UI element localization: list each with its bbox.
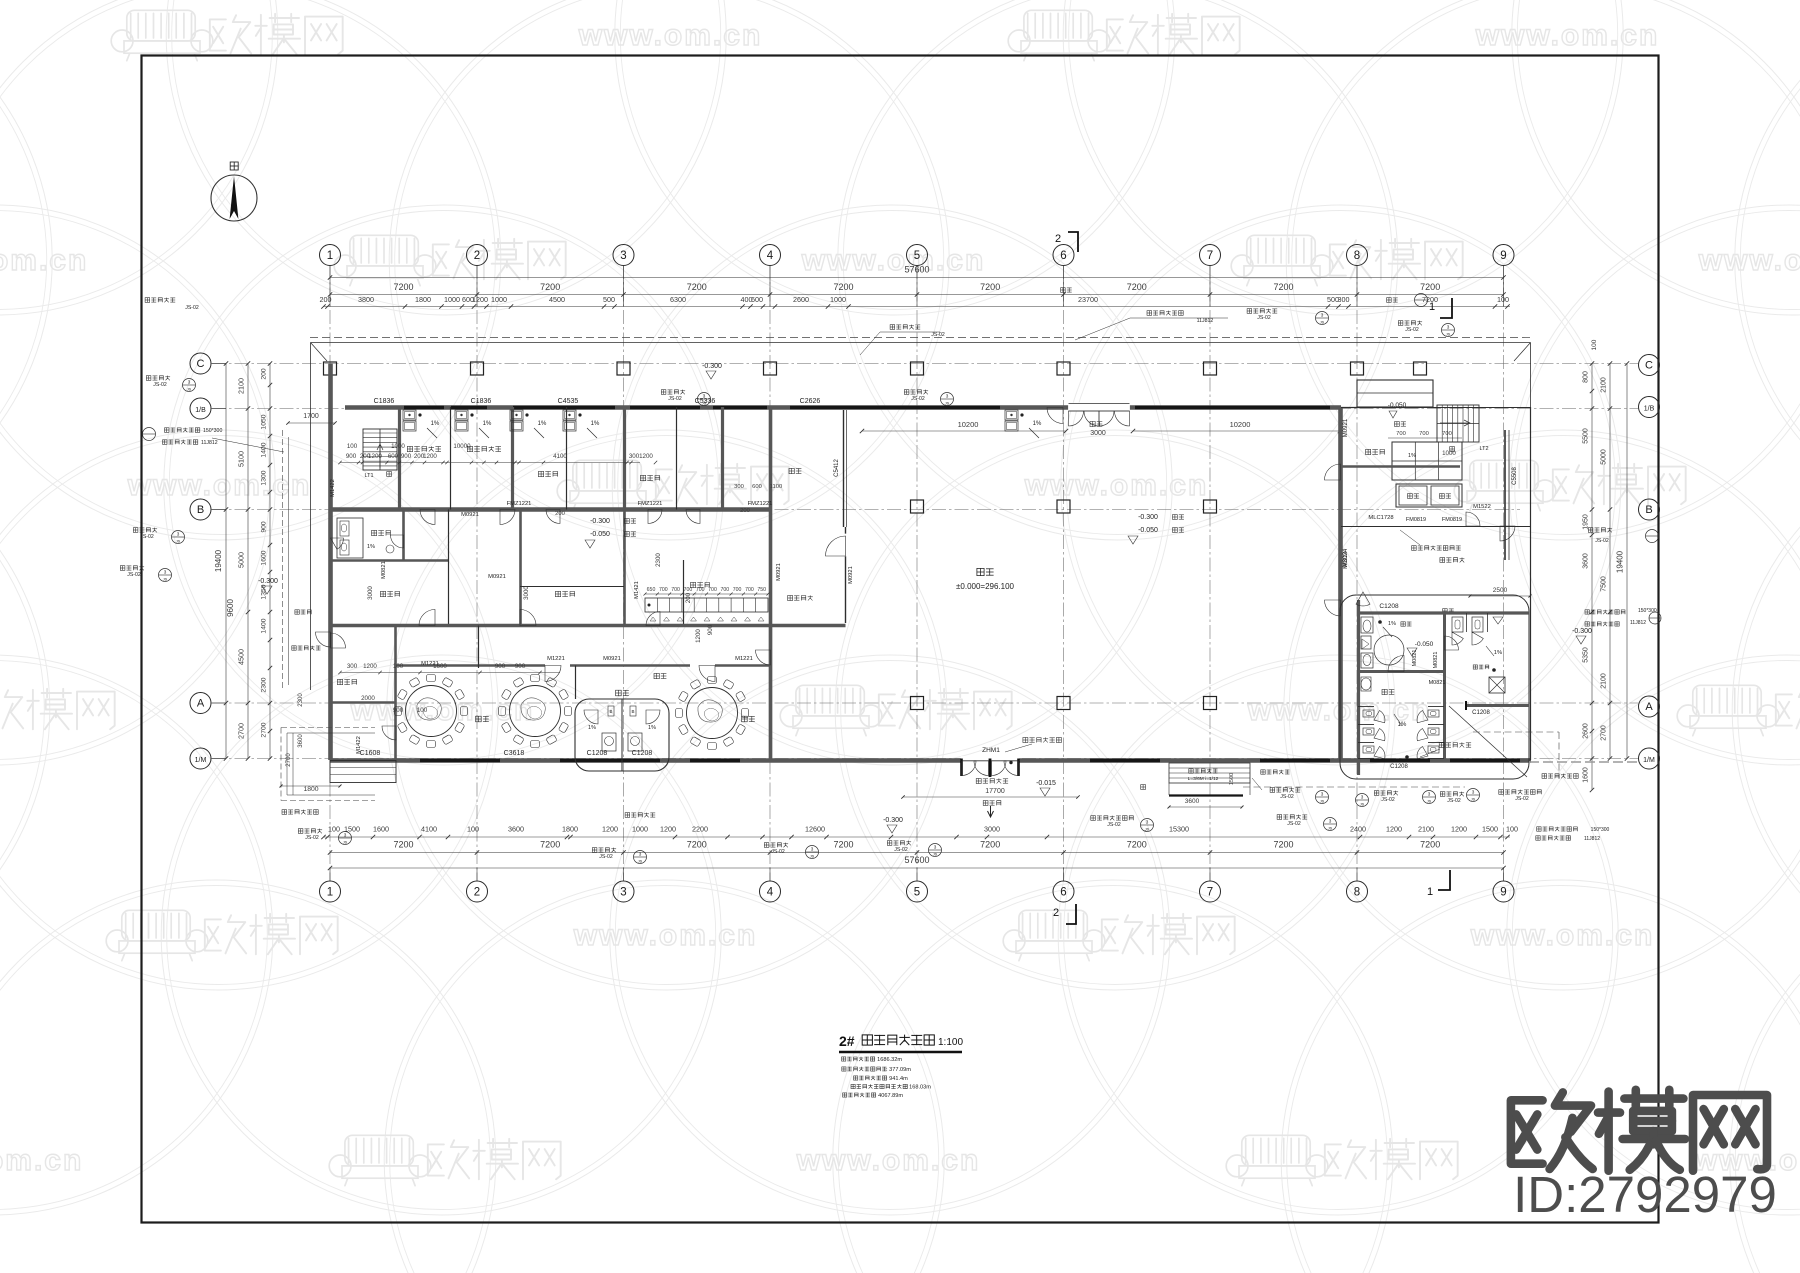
svg-text:650: 650	[647, 587, 656, 593]
svg-text:7200: 7200	[833, 282, 853, 292]
svg-text:200: 200	[685, 592, 692, 603]
svg-text:7200: 7200	[393, 840, 413, 850]
banquet corridor wall	[395, 664, 545, 667]
floor plan drawing	[120, 56, 1661, 1223]
svg-text:5350: 5350	[1583, 647, 1590, 663]
svg-text:9: 9	[1500, 887, 1506, 899]
svg-text:M0821: M0821	[1429, 680, 1446, 686]
svg-text:B: B	[1645, 504, 1652, 516]
svg-text:M0921: M0921	[461, 512, 479, 518]
svg-text:-0.050: -0.050	[590, 531, 610, 538]
svg-text:-0.300: -0.300	[883, 817, 903, 824]
svg-text:4500: 4500	[237, 649, 246, 665]
svg-text:3: 3	[934, 845, 937, 850]
svg-text:7200: 7200	[687, 282, 707, 292]
svg-text:100: 100	[1591, 339, 1598, 350]
svg-text:-0.300: -0.300	[590, 518, 610, 525]
toilet block bottom right	[1340, 595, 1529, 779]
svg-text:JS: JS	[1145, 828, 1150, 832]
svg-text:1300: 1300	[261, 470, 268, 485]
svg-text:1200: 1200	[660, 825, 676, 834]
svg-text:10200: 10200	[1230, 420, 1251, 429]
svg-text:1200: 1200	[363, 663, 377, 670]
shafts dianjing shuijing	[1396, 484, 1462, 507]
svg-text:900: 900	[707, 624, 714, 635]
svg-text:M0921: M0921	[1343, 418, 1349, 437]
wall start label	[1439, 742, 1471, 747]
B-axis wall	[330, 507, 770, 511]
svg-text:2700: 2700	[237, 723, 246, 739]
banquet band top wall	[330, 624, 846, 628]
svg-text:750: 750	[757, 587, 766, 593]
svg-text:7200: 7200	[1273, 282, 1293, 292]
svg-text:www.om.cn: www.om.cn	[1475, 19, 1660, 52]
info text	[842, 1057, 875, 1061]
svg-text:2300: 2300	[655, 553, 662, 567]
svg-text:2100: 2100	[237, 378, 246, 394]
svg-text:1/M: 1/M	[195, 757, 207, 764]
canopy dashed line	[310, 337, 1531, 339]
svg-text:A: A	[197, 698, 205, 710]
stair LT1	[363, 429, 397, 470]
svg-text:1200: 1200	[423, 453, 437, 460]
sinks	[403, 410, 416, 420]
right block upper rooms	[1341, 407, 1530, 409]
svg-text:10200: 10200	[958, 420, 979, 429]
svg-text:2: 2	[1055, 233, 1061, 245]
stair LT2	[1437, 405, 1479, 442]
svg-text:700: 700	[696, 587, 705, 593]
svg-text:4: 4	[767, 250, 774, 262]
drain note left	[282, 810, 318, 815]
axis bubbles top	[320, 245, 341, 266]
svg-text:5000: 5000	[1601, 449, 1608, 465]
svg-text:1500: 1500	[1229, 773, 1235, 785]
svg-text:3: 3	[703, 394, 706, 399]
svg-text:www.om.cn: www.om.cn	[1698, 244, 1800, 277]
accessible WC	[1358, 670, 1444, 673]
svg-text:JS-02: JS-02	[668, 396, 682, 402]
svg-text:1: 1	[327, 887, 333, 899]
svg-text:JS-02: JS-02	[1381, 797, 1395, 803]
svg-text:3600: 3600	[1583, 553, 1590, 569]
svg-text:900: 900	[261, 521, 268, 533]
svg-text:1%: 1%	[1408, 453, 1416, 459]
changing room annex	[330, 761, 396, 783]
svg-text:www.om.cn: www.om.cn	[573, 919, 758, 952]
interior doors	[420, 510, 435, 525]
svg-text:3600: 3600	[508, 825, 524, 834]
svg-text:4100: 4100	[421, 825, 437, 834]
svg-text:C: C	[1645, 360, 1653, 372]
svg-text:3: 3	[344, 833, 347, 838]
svg-text:www.om.cn: www.om.cn	[0, 1144, 83, 1177]
svg-text:1/M: 1/M	[1643, 757, 1655, 764]
water label top right	[1387, 298, 1398, 303]
svg-text:1050: 1050	[261, 414, 268, 429]
svg-text:JS-02: JS-02	[894, 847, 908, 853]
top exterior wall with windows	[345, 405, 1341, 410]
svg-text:1%: 1%	[648, 725, 656, 731]
svg-text:JS: JS	[945, 402, 950, 406]
svg-text:7200: 7200	[393, 282, 413, 292]
svg-text:M0921: M0921	[603, 656, 621, 662]
svg-text:700: 700	[1419, 431, 1429, 437]
svg-text:-0.300: -0.300	[1572, 628, 1592, 635]
svg-text:1/B: 1/B	[195, 407, 206, 414]
svg-text:FM0819: FM0819	[1442, 517, 1462, 523]
terrace outline	[311, 342, 1531, 344]
svg-text:1%: 1%	[591, 421, 600, 427]
svg-text:3: 3	[620, 887, 626, 899]
svg-text:100: 100	[393, 663, 404, 670]
svg-text:1600: 1600	[1583, 767, 1590, 783]
svg-text:ID:2792979: ID:2792979	[1513, 1166, 1777, 1223]
svg-text:3000: 3000	[984, 825, 1000, 834]
svg-text:3: 3	[1146, 820, 1149, 825]
svg-text:M0921: M0921	[848, 566, 854, 584]
svg-text:JS-02: JS-02	[911, 396, 925, 402]
window C5412 vertical	[843, 410, 845, 527]
svg-text:9600: 9600	[226, 599, 235, 617]
svg-text:JS: JS	[1471, 798, 1476, 802]
svg-text:5500: 5500	[1583, 428, 1590, 444]
svg-text:M0921: M0921	[776, 563, 782, 581]
svg-text:1000: 1000	[444, 295, 460, 304]
svg-text:1600: 1600	[433, 663, 447, 670]
svg-text:B: B	[609, 709, 612, 714]
svg-text:JS-02: JS-02	[1257, 315, 1271, 321]
svg-text:1500: 1500	[344, 825, 360, 834]
svg-text:700: 700	[684, 587, 693, 593]
svg-text:JS-02: JS-02	[931, 332, 945, 338]
svg-text:11J812: 11J812	[1197, 318, 1214, 324]
north arrow	[211, 175, 257, 221]
svg-text:1/B: 1/B	[1644, 406, 1655, 413]
svg-text:7200: 7200	[540, 840, 560, 850]
svg-text:M0821: M0821	[1412, 650, 1418, 667]
svg-text:1800: 1800	[415, 295, 431, 304]
svg-text:700: 700	[1442, 431, 1452, 437]
svg-text:4100: 4100	[553, 453, 567, 460]
banquet table 2	[565, 707, 572, 716]
svg-text:5100: 5100	[237, 451, 246, 467]
svg-text:8: 8	[1354, 250, 1360, 262]
svg-text:2100: 2100	[1601, 673, 1608, 689]
svg-text:-0.300: -0.300	[258, 578, 278, 585]
svg-text:1%: 1%	[1494, 650, 1502, 656]
svg-text:1200: 1200	[602, 825, 618, 834]
svg-text:M1522: M1522	[1473, 504, 1491, 510]
left terrace steps dashed	[281, 727, 375, 729]
left exterior wall	[328, 364, 333, 761]
svg-text:JS-02: JS-02	[140, 534, 154, 540]
svg-text:100: 100	[347, 443, 358, 450]
svg-text:900: 900	[393, 707, 404, 714]
svg-text:1800: 1800	[303, 786, 318, 793]
svg-text:www.om.cn: www.om.cn	[1470, 919, 1655, 952]
female WC	[1382, 689, 1394, 694]
svg-text:3: 3	[946, 394, 949, 399]
svg-text:MLC1728: MLC1728	[1368, 515, 1393, 521]
svg-text:www.om.cn: www.om.cn	[350, 694, 535, 727]
svg-text:1200: 1200	[695, 629, 702, 643]
svg-text:3: 3	[1472, 790, 1475, 795]
vertical window C5508	[1504, 430, 1506, 560]
svg-text:7200: 7200	[1420, 282, 1440, 292]
svg-text:2: 2	[1053, 907, 1059, 919]
svg-text:B: B	[631, 709, 634, 714]
svg-text:L=3/6M i=1/12: L=3/6M i=1/12	[1188, 776, 1219, 782]
svg-text:800: 800	[1583, 371, 1590, 383]
svg-text:6300: 6300	[670, 295, 686, 304]
svg-text:1200: 1200	[472, 295, 488, 304]
svg-text:100: 100	[467, 825, 479, 834]
svg-text:-0.300: -0.300	[1138, 514, 1158, 521]
entrance door above block	[1356, 592, 1370, 606]
svg-text:7: 7	[1207, 250, 1213, 262]
svg-text:C1836: C1836	[374, 398, 395, 405]
svg-text:12600: 12600	[805, 825, 825, 834]
svg-text:3000: 3000	[367, 586, 374, 600]
right hall wall	[1338, 408, 1343, 761]
svg-text:300: 300	[734, 484, 744, 490]
svg-text:JS: JS	[702, 402, 707, 406]
svg-text:7200: 7200	[1127, 282, 1147, 292]
svg-text:: 1686.32m: : 1686.32m	[874, 1057, 902, 1063]
svg-text:200: 200	[740, 508, 750, 514]
svg-text:C1208: C1208	[1472, 710, 1490, 716]
svg-text:1700: 1700	[303, 413, 319, 420]
svg-text:23700: 23700	[1078, 295, 1098, 304]
svg-text:700: 700	[1396, 431, 1406, 437]
svg-text:3: 3	[811, 847, 814, 852]
step note right	[1537, 827, 1578, 832]
svg-text:2700: 2700	[261, 722, 268, 737]
svg-text:150*300: 150*300	[1591, 827, 1610, 833]
top dimension rows	[330, 277, 1504, 279]
svg-text:B: B	[197, 504, 204, 516]
svg-text:C1208: C1208	[1390, 764, 1408, 770]
svg-text:www.om.cn: www.om.cn	[801, 244, 986, 277]
svg-text:1: 1	[1429, 301, 1435, 313]
svg-text:FMZ1221: FMZ1221	[638, 501, 663, 507]
svg-text:57600: 57600	[904, 265, 929, 275]
svg-text:JS: JS	[638, 860, 643, 864]
svg-text:700: 700	[708, 587, 717, 593]
svg-text:1200: 1200	[368, 453, 382, 460]
svg-text:M1221: M1221	[547, 656, 565, 662]
svg-text:900: 900	[401, 453, 412, 460]
svg-text:1200: 1200	[1451, 825, 1467, 834]
svg-text:19400: 19400	[214, 549, 223, 572]
banquet partitions	[394, 626, 397, 761]
svg-text:JS: JS	[933, 853, 938, 857]
svg-text:: 4067.89m: : 4067.89m	[875, 1093, 903, 1099]
grid lines	[329, 265, 331, 881]
svg-text:100: 100	[1506, 825, 1518, 834]
svg-text:2: 2	[474, 887, 480, 899]
door slope label	[1023, 737, 1062, 742]
svg-text:7200: 7200	[980, 282, 1000, 292]
svg-text:3: 3	[1329, 819, 1332, 824]
svg-text:JS: JS	[1320, 321, 1325, 325]
svg-text:JS-02: JS-02	[1447, 798, 1461, 804]
svg-text:1600: 1600	[261, 550, 268, 565]
svg-text:JS-02: JS-02	[127, 572, 141, 578]
right side callouts	[1588, 528, 1612, 533]
svg-text:100: 100	[328, 825, 340, 834]
svg-text:C3618: C3618	[504, 750, 525, 757]
columns on axis C	[324, 362, 337, 375]
wall segment right with window	[1466, 704, 1529, 707]
svg-text:200: 200	[320, 295, 332, 304]
left dimension columns	[225, 364, 227, 759]
svg-text:1800: 1800	[562, 825, 578, 834]
svg-text:700: 700	[745, 587, 754, 593]
svg-text:1: 1	[327, 250, 333, 262]
svg-text:7200: 7200	[1273, 840, 1293, 850]
axis bubbles bottom	[320, 881, 341, 902]
svg-text:2#: 2#	[839, 1033, 855, 1049]
svg-text:www.om.cn: www.om.cn	[1024, 469, 1209, 502]
svg-text:8: 8	[1354, 887, 1360, 899]
svg-text:ZHM1: ZHM1	[982, 747, 1000, 754]
bottom exterior wall with windows	[330, 758, 1531, 763]
svg-text:1350: 1350	[261, 584, 268, 599]
svg-text:2500: 2500	[1493, 587, 1508, 594]
svg-text:1600: 1600	[373, 825, 389, 834]
svg-text:JS-02: JS-02	[1515, 796, 1529, 802]
axis bubbles left	[190, 353, 211, 374]
svg-text:1%: 1%	[1398, 722, 1407, 728]
male WC stalls top right	[1452, 617, 1463, 632]
svg-text:11J812: 11J812	[1630, 620, 1646, 626]
svg-text:A: A	[1645, 701, 1653, 713]
svg-text:1200: 1200	[1386, 825, 1402, 834]
svg-text:4500: 4500	[549, 295, 565, 304]
svg-text:1000: 1000	[491, 295, 507, 304]
svg-text:7200: 7200	[980, 840, 1000, 850]
svg-text:JS-02: JS-02	[305, 835, 319, 841]
svg-text:JS-02: JS-02	[1280, 794, 1294, 800]
svg-text:1500: 1500	[1482, 825, 1498, 834]
svg-text:900: 900	[346, 453, 357, 460]
axis bubbles right	[1639, 355, 1660, 376]
svg-text:M0821: M0821	[381, 561, 387, 579]
svg-text:M0821: M0821	[1433, 652, 1439, 669]
svg-text:JS: JS	[1360, 803, 1365, 807]
accessible ramp	[1169, 763, 1250, 783]
svg-text:2700: 2700	[1601, 725, 1608, 741]
svg-text:±0.000=296.100: ±0.000=296.100	[956, 582, 1015, 591]
svg-text:1000: 1000	[830, 295, 846, 304]
svg-text:3: 3	[1321, 792, 1324, 797]
svg-text:JS: JS	[163, 578, 168, 582]
svg-text:5: 5	[914, 887, 920, 899]
svg-text:JS-02: JS-02	[1287, 821, 1301, 827]
svg-text:57600: 57600	[904, 855, 929, 865]
svg-text:900: 900	[495, 663, 506, 670]
banquet table 3	[742, 709, 749, 718]
svg-text:C2626: C2626	[800, 398, 821, 405]
svg-text:3000: 3000	[1090, 430, 1106, 437]
svg-text:1: 1	[1427, 886, 1433, 898]
svg-text:FMZ1221: FMZ1221	[507, 501, 532, 507]
svg-text:M3024: M3024	[1343, 548, 1349, 567]
svg-text:3600: 3600	[298, 734, 304, 748]
svg-text:1000: 1000	[391, 443, 405, 450]
svg-text:3600: 3600	[1185, 798, 1200, 805]
svg-text:JS: JS	[343, 841, 348, 845]
svg-text:3: 3	[164, 570, 167, 575]
svg-text:1100: 1100	[770, 484, 782, 490]
svg-text:C: C	[197, 358, 205, 370]
columns on axis A	[911, 697, 924, 710]
svg-text:2: 2	[474, 250, 480, 262]
svg-text:JS: JS	[176, 540, 181, 544]
svg-text:600: 600	[752, 484, 762, 490]
svg-text:700: 700	[720, 587, 729, 593]
svg-text:3000: 3000	[523, 586, 530, 600]
svg-text:JS: JS	[1427, 800, 1432, 804]
svg-text:-0.050: -0.050	[1388, 402, 1407, 409]
svg-text:1:100: 1:100	[938, 1037, 963, 1048]
svg-text:JS-02: JS-02	[771, 849, 785, 855]
entrance labels	[976, 778, 1008, 783]
svg-text:3800: 3800	[358, 295, 374, 304]
svg-text:100: 100	[417, 707, 428, 714]
svg-text:M1221: M1221	[735, 656, 753, 662]
columns on axis B	[911, 500, 924, 513]
svg-text:FM0819: FM0819	[1406, 517, 1426, 523]
svg-text:C4535: C4535	[558, 398, 579, 405]
svg-text:1000: 1000	[632, 825, 648, 834]
upper canopy note	[1147, 311, 1183, 316]
svg-text:www.om.cn: www.om.cn	[0, 244, 88, 277]
svg-text:JS-02: JS-02	[1405, 327, 1419, 333]
banquet table 1	[461, 707, 468, 716]
concrete sill label	[1412, 546, 1461, 551]
main entrance ZHM1	[961, 757, 1019, 766]
svg-text:-0.050: -0.050	[1415, 641, 1434, 648]
svg-text:www.om.cn: www.om.cn	[127, 469, 312, 502]
svg-text:11J812: 11J812	[201, 440, 218, 446]
svg-text:200: 200	[261, 368, 268, 380]
svg-text:C5412: C5412	[834, 459, 840, 477]
svg-text:150*300: 150*300	[203, 428, 222, 434]
svg-text:6: 6	[1060, 250, 1066, 262]
svg-text:LT2: LT2	[1479, 446, 1488, 452]
svg-text:700: 700	[671, 587, 680, 593]
pantry room wall	[845, 527, 847, 623]
svg-text:11J812: 11J812	[1584, 836, 1600, 842]
middle rounded room with WCs	[575, 699, 669, 771]
svg-text:M1422: M1422	[356, 736, 362, 754]
svg-text:2100: 2100	[1601, 377, 1608, 393]
svg-text:1%: 1%	[1033, 421, 1042, 427]
svg-text:600: 600	[388, 453, 399, 460]
svg-text:1%: 1%	[588, 725, 596, 731]
svg-text:3: 3	[177, 532, 180, 537]
washing rack with dims	[645, 598, 768, 612]
svg-text:JS: JS	[810, 855, 815, 859]
site logo	[1511, 1090, 1777, 1223]
right outside diagonal and dashed canopy	[1449, 706, 1527, 777]
svg-text:1%: 1%	[483, 421, 492, 427]
drain note right	[1542, 774, 1578, 779]
svg-text:2300: 2300	[261, 677, 268, 692]
